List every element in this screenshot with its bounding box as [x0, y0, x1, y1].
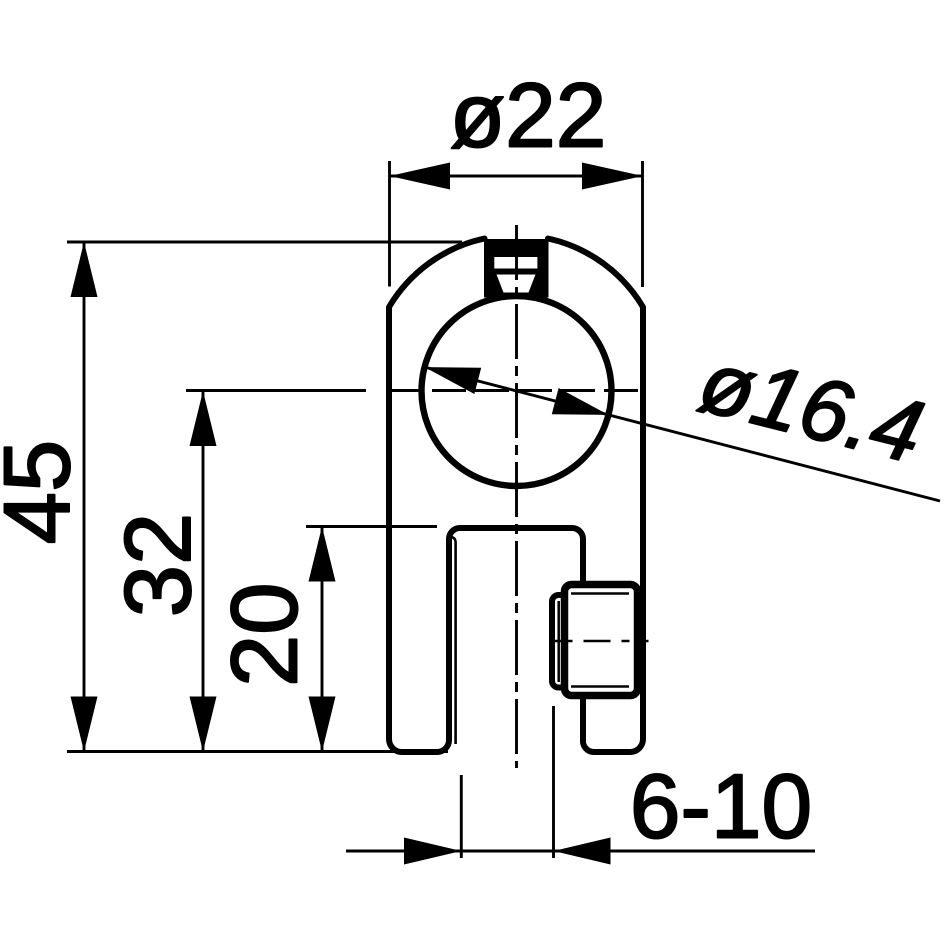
- dimension 45: dimension line: [83, 242, 86, 752]
- dimension ø22: dimension line: [390, 175, 643, 178]
- dimension 6-10: dimension line: [346, 850, 815, 853]
- pad face line: [557, 601, 560, 682]
- dimension 20: arrows: [309, 527, 336, 582]
- set screw (top, slotted with cone point): [484, 239, 549, 298]
- clamp pad (washer left of screw block): [552, 595, 574, 688]
- bore circle ø16.4: [422, 296, 612, 486]
- dimension ø22: extension lines: [388, 161, 391, 287]
- vertical centerline: [515, 225, 518, 768]
- clamp screw block (hex head): [565, 585, 638, 696]
- svg-text:ø22: ø22: [450, 66, 607, 167]
- dimension ø16.4: arrows: [425, 367, 482, 394]
- screw head chamfer line top: [571, 592, 629, 595]
- svg-text:32: 32: [105, 513, 210, 618]
- dimension 6-10: extension lines: [460, 775, 463, 858]
- screw head chamfer line bottom: [571, 685, 629, 688]
- svg-text:6-10: 6-10: [630, 756, 812, 857]
- dimension 20: dimension line: [321, 527, 324, 752]
- horizontal centerline through bore: [186, 389, 366, 392]
- slot face inner line (left): [452, 537, 456, 744]
- part outline: [389, 239, 643, 753]
- dimension ø22: arrows: [390, 163, 451, 190]
- dimension 6-10: arrows: [404, 838, 461, 865]
- dimension ø16.4: leader line: [425, 367, 940, 501]
- svg-text:20: 20: [212, 582, 317, 687]
- svg-text:45: 45: [0, 440, 89, 545]
- dimension 32: arrows: [190, 391, 217, 446]
- dimension 32: dimension line: [202, 391, 205, 752]
- dimension 45: arrows: [71, 242, 98, 297]
- screw axis centerline (dashed): [552, 640, 649, 643]
- dimension 20: extension line: [306, 525, 437, 528]
- dimension 45: extension lines: [67, 241, 462, 244]
